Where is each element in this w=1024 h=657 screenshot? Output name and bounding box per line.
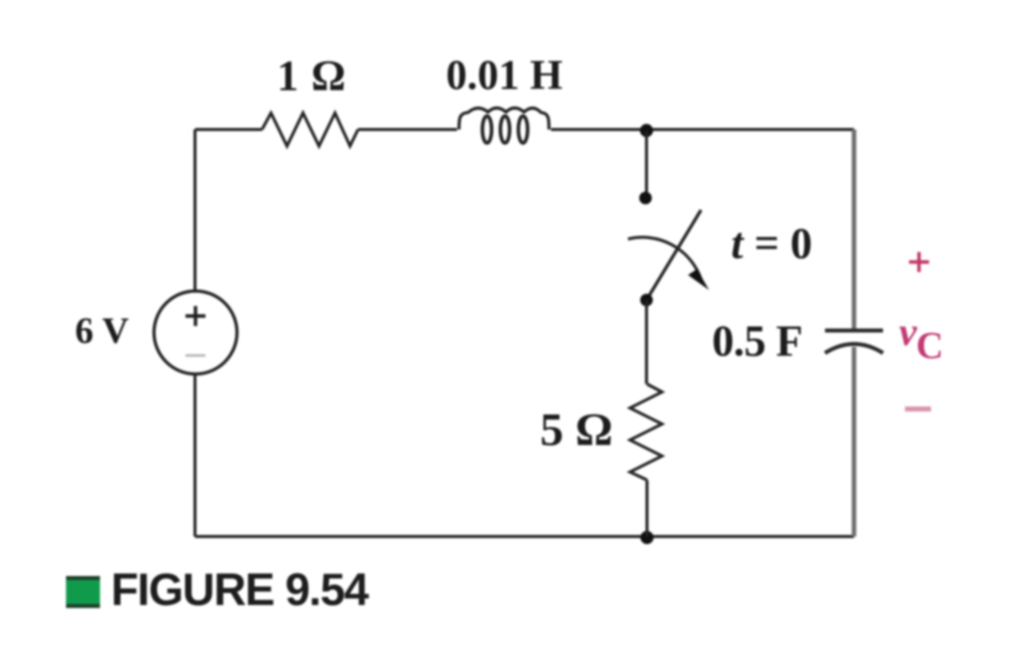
resistor R1 1 ohm zigzag [262,113,358,146]
wire bottom horizontal [195,535,854,538]
capacitor plus polarity mark [909,252,929,272]
svg-text:C: C [916,325,943,367]
svg-text:5 Ω: 5 Ω [540,404,613,456]
node junction top [640,124,653,137]
inductor L1 0.01 H [459,108,549,143]
switch arrowhead [688,269,709,290]
wire top-left horizontal segment [195,128,262,131]
caption FIGURE 9.54 [111,564,368,616]
switch lower terminal dot [640,294,653,307]
capacitor C1 top plate [825,329,883,333]
wire resistor to bottom [646,480,649,537]
switch upper terminal dot [639,192,652,205]
wire right vertical lower [852,347,857,537]
wire left vertical upper [194,130,197,292]
source V1 6V circle [154,291,237,374]
svg-text:1 Ω: 1 Ω [277,53,347,100]
switch motion arc [628,237,701,279]
capacitor minus polarity mark [905,407,931,412]
resistor R2 5 ohm vertical zigzag [630,384,662,480]
wire inductor to junction and corner [551,128,854,131]
svg-text:t = 0: t = 0 [731,219,812,268]
wire between resistor and inductor [358,128,457,131]
wire switch upper stub [645,131,648,193]
source plus sign [186,306,206,326]
svg-text:0.01 H: 0.01 H [446,53,563,99]
switch blade [647,210,702,300]
svg-text:6 V: 6 V [75,311,129,352]
green figure marker square [66,576,100,608]
node junction bottom [640,531,653,544]
svg-text:0.5 F: 0.5 F [712,317,802,366]
capacitor C1 curved bottom plate [825,344,883,353]
wire switch to resistor [645,300,648,384]
wire left vertical lower [194,376,197,537]
source minus sign [186,354,206,357]
wire right vertical upper [852,130,857,331]
